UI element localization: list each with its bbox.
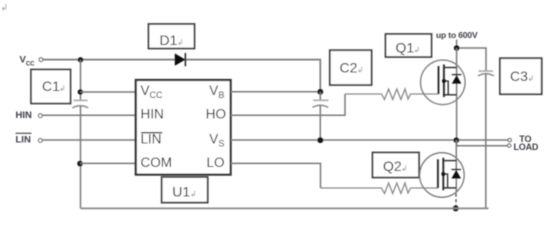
terminal LOAD [508,144,511,147]
capacitor C2 label box [330,50,372,85]
wire VB [231,91,321,93]
svg-text:↲: ↲ [414,46,421,55]
capacitor C2 (bootstrap) [319,92,321,100]
svg-text:D1: D1 [160,32,178,48]
wire Q2 source (dashed) [455,194,457,207]
junction dot source/ground [453,205,459,211]
svg-text:Q1: Q1 [396,40,415,56]
terminal TO [508,138,511,141]
capacitor C1 label box [31,70,71,104]
wire C1 column lower [80,106,82,208]
junction dot Vcc/C1 [78,57,83,62]
svg-text:U1: U1 [172,184,190,200]
svg-text:LIN: LIN [16,135,31,146]
transistor Q2 (N-MOSFET) [420,153,465,198]
capacitor C1 plates [73,99,87,101]
junction dot Vcc pin tap [78,89,83,94]
wire HO route [231,94,345,115]
svg-text:↲: ↲ [1,3,9,13]
junction dot supply [454,45,460,51]
svg-text:HIN: HIN [141,107,164,122]
wire ground return rail [81,207,489,209]
svg-text:↲: ↲ [190,190,197,199]
resistor R(LO gate) [321,183,438,194]
wire to COM pin [80,162,136,164]
wire LIN [42,139,135,141]
diode D1 [175,54,185,66]
svg-text:C2: C2 [340,60,358,76]
junction dot midpoint [454,137,460,143]
svg-text:↲: ↲ [177,38,184,47]
svg-text:LIN: LIN [141,131,162,146]
wire supply stub [457,40,486,72]
wire drain column Q2 [455,140,457,193]
svg-text:HIN: HIN [16,110,33,121]
junction dot COM tap [77,161,83,167]
svg-text:up to 600V: up to 600V [436,30,478,40]
svg-text:LO: LO [207,155,225,170]
svg-text:LOAD: LOAD [514,142,539,152]
wire Vcc top rail [43,60,320,89]
svg-text:Q2: Q2 [383,158,402,174]
svg-text:↲: ↲ [528,74,535,83]
wire C3 column [485,74,487,209]
svg-text:↲: ↲ [59,84,66,93]
transistor Q1 label box [386,34,432,57]
wire VS / midpoint to TO terminal [231,139,508,141]
transistor Q1 (N-MOSFET) [421,60,466,105]
junction dot VS/C2 [317,137,323,143]
capacitor C3 label box [500,58,542,94]
svg-text:↲: ↲ [357,66,364,75]
svg-text:C1: C1 [42,78,60,94]
wire C1 column upper [80,60,82,100]
junction dot VB/C2 [317,89,323,95]
IC U1 label box [162,177,208,203]
svg-text:HO: HO [206,107,226,122]
wire LO route [231,163,321,188]
svg-text:C3: C3 [510,68,528,84]
wire to VCC pin [80,91,136,93]
transistor Q2 label box [373,153,420,178]
wire LOAD lower lead [457,140,508,146]
wire HIN [42,114,135,116]
capacitor C3 (bus) [479,70,493,72]
svg-text:COM: COM [141,155,173,170]
diode D1 label box [149,24,195,49]
terminal Vcc [39,58,43,62]
svg-text:↲: ↲ [401,164,408,173]
op-amp/driver IC U1 box [136,80,231,175]
resistor R(HO gate) [345,89,438,100]
wire drain column Q1 [456,48,458,140]
